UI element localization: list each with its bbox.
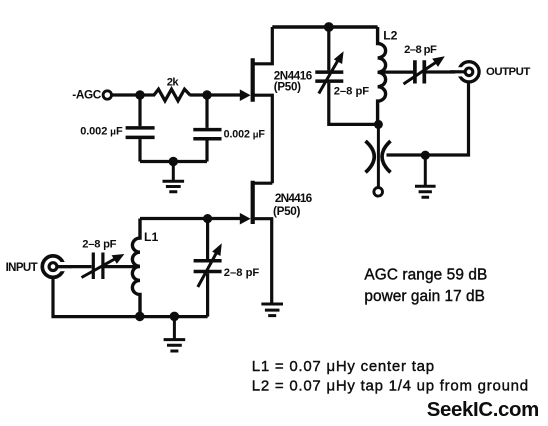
- wire node B to Q1 gate: [207, 93, 246, 96]
- svg-text:2N4416: 2N4416: [275, 191, 313, 205]
- terminal -AGC: [103, 91, 111, 99]
- capacitor VC2 arrow: [404, 61, 438, 84]
- wire VC3 to L1 tap: [105, 265, 141, 268]
- capacitor VC4 variable 2-8pF (tank) top lead: [206, 219, 209, 260]
- junction node J6: [203, 214, 212, 223]
- junction node J2: [374, 120, 383, 129]
- svg-text:INPUT: INPUT: [6, 262, 38, 274]
- wire feedthrough to node J3: [387, 153, 426, 156]
- transistor Q1 gate arrow: [240, 89, 251, 101]
- capacitor VC1 plates: [315, 72, 343, 81]
- svg-text:OUTPUT: OUTPUT: [486, 66, 530, 78]
- junction node C: [169, 157, 178, 166]
- wire R1 to node B: [190, 93, 208, 96]
- svg-text:(P50): (P50): [274, 80, 301, 93]
- svg-text:L1: L1: [144, 230, 158, 244]
- transistor Q1 2N4416 upper: channel bar: [251, 58, 255, 102]
- capacitor VC4 arrow: [198, 252, 217, 287]
- junction node J4: [135, 312, 145, 322]
- capacitor VC4 bottom lead: [206, 273, 209, 316]
- capacitor VC1 arrow: [319, 59, 339, 93]
- transistor Q2 gate arrow: [240, 213, 251, 225]
- transistor Q1 source lead down: [253, 95, 272, 183]
- svg-text:0.002 μF: 0.002 μF: [224, 128, 266, 140]
- transistor Q2 source lead to ground: [253, 219, 272, 304]
- wire input jack to VC3: [57, 265, 92, 268]
- transistor Q2 2N4416 lower: channel bar: [251, 181, 255, 224]
- svg-text:-AGC: -AGC: [72, 87, 101, 101]
- svg-text:L2 = 0.07 μHy tap 1/4 up from: L2 = 0.07 μHy tap 1/4 up from ground: [252, 378, 529, 395]
- inductor L1: [132, 219, 140, 317]
- ground G4: [164, 316, 186, 351]
- capacitor VC3 variable 2-8pF (input coupling) plates: [93, 253, 103, 280]
- capacitor VC1 variable 2-8pF top lead: [327, 27, 330, 70]
- ground G3: [415, 155, 436, 197]
- svg-text:2–8 pF: 2–8 pF: [82, 239, 116, 251]
- wire top rail: [272, 25, 377, 29]
- junction node J5: [170, 312, 180, 322]
- wire AGC terminal to node A: [112, 93, 140, 96]
- svg-text:SeekIC.com: SeekIC.com: [427, 399, 539, 421]
- inductor L2: [378, 27, 386, 124]
- feedthrough capacitor left arc: [366, 141, 375, 172]
- ground G2: [261, 304, 283, 316]
- wire C1 to C2 bottom rail: [140, 160, 207, 163]
- svg-text:L1 = 0.07 μHy center tap: L1 = 0.07 μHy center tap: [252, 358, 435, 375]
- junction node J1 on top rail: [324, 22, 334, 32]
- feedthrough capacitor stem: [377, 124, 380, 187]
- transistor Q2 drain lead: [253, 182, 272, 185]
- capacitor C2 bottom lead: [205, 141, 208, 162]
- capacitor VC2 variable 2-8pF (output coupling) plates: [415, 60, 424, 83]
- capacitor VC3 arrow: [82, 257, 118, 277]
- svg-text:power gain 17 dB: power gain 17 dB: [364, 288, 485, 305]
- capacitor C2 0.002uF top lead: [205, 95, 208, 128]
- capacitor C1 bottom lead: [138, 139, 141, 161]
- connector output jack: [450, 62, 479, 82]
- wire VC2 to output jack: [426, 70, 465, 73]
- svg-text:2k: 2k: [167, 76, 180, 88]
- capacitor VC1 bottom lead to node J2: [329, 83, 379, 125]
- svg-text:2–8 pF: 2–8 pF: [334, 86, 370, 98]
- transistor Q1 drain lead to top rail: [253, 27, 272, 64]
- svg-text:L2: L2: [383, 28, 397, 42]
- ground G1: [163, 162, 185, 192]
- feedthrough capacitor right arc: [382, 141, 390, 172]
- connector input jack: [42, 256, 72, 277]
- resistor R1 2k: [154, 89, 190, 101]
- svg-text:2–8 pF: 2–8 pF: [404, 44, 437, 56]
- wire L1 top to Q2 gate: [140, 217, 246, 220]
- svg-text:(P50): (P50): [273, 204, 301, 218]
- capacitor C2 plates: [193, 130, 221, 139]
- wire node A to resistor R1: [140, 93, 155, 96]
- wire input jack down and bottom rail: [53, 277, 208, 317]
- junction node B: [202, 90, 211, 99]
- junction node J3: [421, 151, 430, 160]
- junction node A: [135, 90, 144, 99]
- feedthrough terminal circle: [374, 188, 383, 197]
- svg-text:2–8 pF: 2–8 pF: [224, 267, 260, 279]
- capacitor C1 0.002uF top lead: [138, 95, 141, 126]
- wire L2 tap to VC2: [378, 70, 413, 73]
- svg-text:AGC range 59 dB: AGC range 59 dB: [364, 266, 487, 283]
- capacitor VC4 plates: [194, 261, 222, 272]
- wire node J3 to output jack: [425, 83, 468, 155]
- capacitor C1 plates: [126, 128, 155, 137]
- svg-text:0.002 μF: 0.002 μF: [80, 125, 123, 137]
